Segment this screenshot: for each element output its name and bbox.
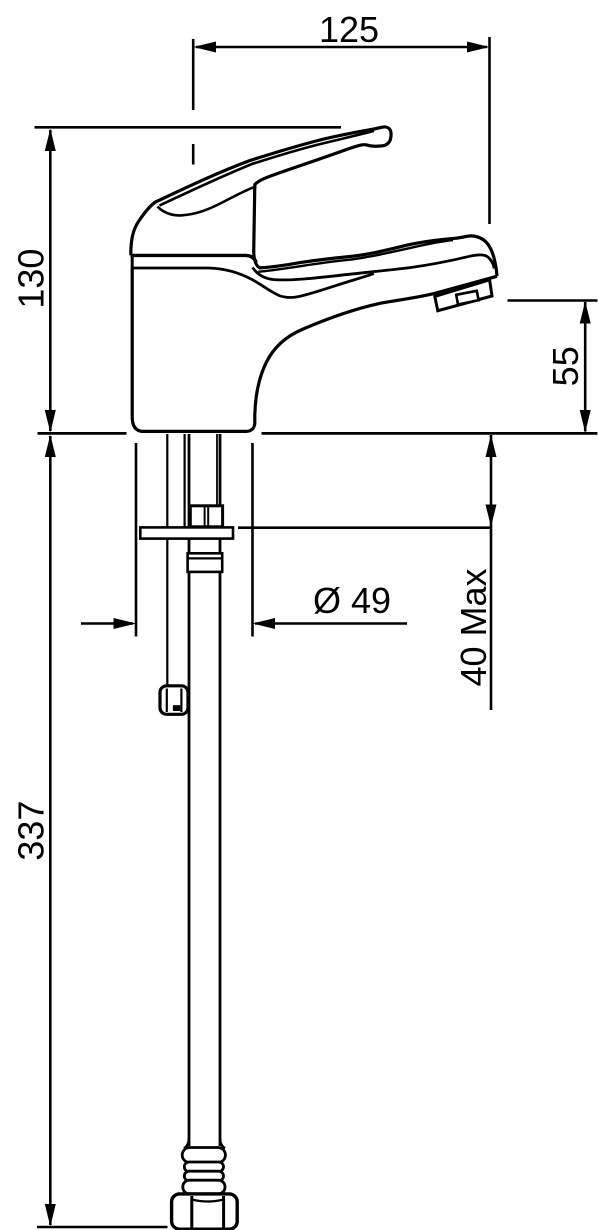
spout waist line bbox=[253, 255, 495, 280]
hose left wall bbox=[188, 434, 191, 1146]
rod nut facet left bbox=[166, 689, 168, 713]
arrow bottom of 337 bbox=[45, 1204, 56, 1227]
baseline right segment bbox=[262, 432, 598, 435]
extension line D49 right bbox=[251, 443, 254, 637]
faucet body outline (left edge, bottom, right sweeping silhouette up to spout cut) bbox=[132, 268, 497, 431]
hex nut facet left bbox=[190, 1196, 193, 1229]
dimension 125 line bbox=[196, 46, 487, 49]
hose collar bbox=[188, 553, 223, 572]
hex nut facet right bbox=[222, 1196, 225, 1229]
spout bottom edge (shoulder, dip and rise) bbox=[132, 268, 374, 297]
dimension 130 line bbox=[49, 130, 52, 431]
dimension D49 right line bbox=[255, 622, 407, 625]
arrow top of 130 bbox=[45, 129, 56, 151]
dome cap left outline and lever top edge bbox=[131, 127, 391, 255]
mounting flange bbox=[140, 527, 233, 538]
aerator notch bbox=[456, 291, 478, 305]
dimension 55 line bbox=[584, 302, 587, 432]
hose flare right bbox=[220, 1138, 225, 1149]
hose right wall bbox=[219, 434, 222, 1146]
arrow up of 40 Max bbox=[486, 435, 497, 457]
svg-text:40 Max: 40 Max bbox=[453, 568, 494, 686]
rod nut bbox=[160, 686, 188, 715]
hose hex nut bbox=[172, 1194, 238, 1229]
svg-text:125: 125 bbox=[319, 9, 379, 50]
cap base line bbox=[131, 255, 257, 262]
arrow bottom of 55 bbox=[580, 410, 591, 433]
svg-text:337: 337 bbox=[10, 801, 51, 861]
arrow right of D49 bbox=[253, 618, 276, 629]
extension line bottom (nut bottom level) bbox=[37, 1226, 168, 1229]
rod nut end square bbox=[173, 705, 180, 711]
corrugation ring 2 bbox=[184, 1162, 223, 1172]
arrow left of D49 bbox=[114, 618, 137, 629]
flange level line to 40 Max bbox=[238, 526, 492, 529]
body left edge between cap base and shoulder bbox=[131, 257, 134, 269]
corrugation ring 1 bbox=[182, 1148, 225, 1163]
arrow down of 40 Max bbox=[486, 505, 497, 527]
corrugation ring 4 bbox=[183, 1180, 225, 1194]
shank tube inner line bbox=[216, 434, 218, 506]
extension line D49 left bbox=[135, 443, 138, 637]
hose collar band bbox=[188, 557, 223, 559]
dimension 337 line bbox=[49, 436, 52, 1225]
shank nut above flange bbox=[190, 506, 222, 527]
dome wavy shading line bbox=[158, 186, 257, 215]
corrugation ring 3 bbox=[184, 1171, 223, 1181]
dimension D49 left line bbox=[81, 622, 133, 625]
aerator block bbox=[435, 280, 492, 311]
lever inner blade line bbox=[160, 131, 375, 206]
arrow top of 55 bbox=[580, 301, 591, 324]
hex nut top chamfer arc bbox=[192, 1200, 224, 1202]
extension line right of 125 bbox=[488, 37, 491, 224]
arrow right of 125 bbox=[467, 42, 490, 53]
baseline (counter level) left segment bbox=[38, 432, 127, 435]
spout top outer edge bbox=[254, 236, 497, 276]
arrow bottom of 130 bbox=[45, 410, 56, 433]
hose flare left bbox=[184, 1138, 189, 1149]
shank nut facet line right bbox=[207, 506, 209, 527]
shank nut facet line left bbox=[204, 506, 206, 527]
extension line left of 125 upper dash bbox=[192, 39, 195, 110]
shank rod right line bbox=[184, 434, 186, 527]
svg-text:55: 55 bbox=[545, 346, 586, 386]
svg-text:Ø 49: Ø 49 bbox=[313, 580, 391, 621]
arrow top of 337 bbox=[45, 435, 56, 457]
svg-text:130: 130 bbox=[10, 249, 51, 309]
extension line top (handle top level) bbox=[35, 126, 342, 129]
arrow left of 125 bbox=[193, 42, 216, 53]
extension line left of 125 lower dash bbox=[192, 144, 195, 165]
rod nut facet right bbox=[180, 689, 182, 713]
extension line at spout outlet level bbox=[508, 299, 598, 302]
shank rod left line bbox=[166, 434, 168, 687]
dimension 40 Max line bbox=[490, 435, 493, 710]
spout top inner line bbox=[258, 240, 453, 272]
